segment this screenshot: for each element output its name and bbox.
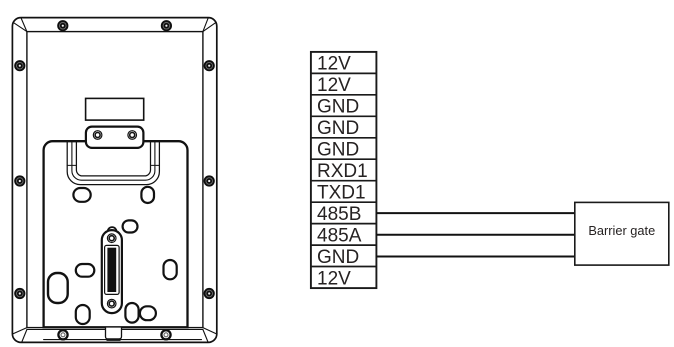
svg-text:12V: 12V <box>317 75 351 96</box>
svg-text:485A: 485A <box>317 226 362 247</box>
svg-text:Barrier gate: Barrier gate <box>588 223 655 238</box>
svg-text:GND: GND <box>317 140 359 161</box>
svg-text:485B: 485B <box>317 204 361 225</box>
svg-text:12V: 12V <box>317 268 351 289</box>
svg-text:GND: GND <box>317 97 359 118</box>
svg-text:GND: GND <box>317 247 359 268</box>
svg-text:GND: GND <box>317 118 359 139</box>
svg-text:TXD1: TXD1 <box>317 183 366 204</box>
svg-text:12V: 12V <box>317 54 351 75</box>
svg-text:RXD1: RXD1 <box>317 161 368 182</box>
